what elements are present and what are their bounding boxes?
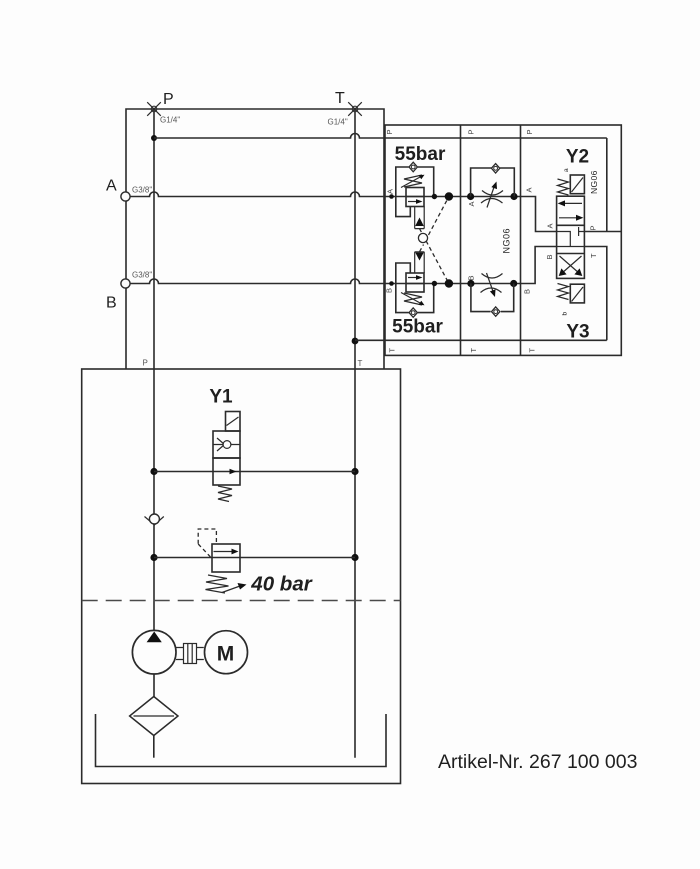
- adjust arrow of F2: [487, 273, 494, 293]
- solenoid b (Y3): [570, 284, 584, 303]
- svg-text:T: T: [589, 253, 598, 258]
- svg-text:Y1: Y1: [209, 387, 233, 408]
- svg-text:A: A: [467, 201, 476, 206]
- wire: dashed pilot line V1 to B line: [420, 229, 449, 284]
- U1 top box flow arrows: [563, 202, 582, 204]
- svg-text:B: B: [106, 295, 117, 312]
- wire: B work line (hops over P and T verticals, staircase to valve B port): [130, 247, 557, 284]
- svg-text:B: B: [385, 288, 394, 293]
- wire: U1 T port to manifold T rail: [584, 247, 606, 341]
- node: junction T return: [352, 338, 359, 345]
- svg-text:P: P: [385, 129, 394, 134]
- flow arrow inside V1: [408, 201, 418, 203]
- svg-text:a: a: [563, 168, 570, 172]
- port P (crossed plug symbol): [147, 102, 161, 116]
- svg-text:G3/8": G3/8": [132, 271, 152, 280]
- port T (crossed plug symbol): [348, 102, 362, 116]
- flow arrow inside RV1: [214, 551, 234, 553]
- spring of V1 (adjustable): [404, 175, 422, 187]
- svg-text:P: P: [525, 129, 534, 134]
- wire T vertical line (T port down into tank): [354, 109, 356, 758]
- solenoid a (Y2): [570, 175, 584, 194]
- spring of V2 (adjustable): [404, 293, 422, 305]
- svg-text:Y3: Y3: [566, 322, 589, 343]
- svg-text:NG06: NG06: [502, 228, 512, 254]
- wire: dashed separator inside power unit: [82, 600, 401, 602]
- throttle arcs of F1: [481, 191, 503, 204]
- spring at Y2 end: [558, 179, 569, 195]
- valve RV1: pressure relief valve 40 bar: [198, 529, 246, 593]
- valve V1: counterbalance/relief valve 55bar on A line: [396, 162, 434, 228]
- svg-text:P: P: [143, 359, 148, 368]
- node: junction Y1 branch left: [150, 468, 157, 475]
- svg-text:B: B: [467, 275, 476, 280]
- svg-text:NG06: NG06: [589, 170, 599, 194]
- check valve diamond of V1: [409, 162, 417, 172]
- wire: ports block outline (top/left/right of P-T-A-B block): [126, 109, 384, 369]
- wire: B line through V2 body: [406, 283, 424, 285]
- svg-text:A: A: [386, 189, 395, 194]
- svg-text:A: A: [106, 178, 117, 195]
- motor M1 (electric motor): [205, 631, 248, 674]
- manifold cell divider 1: [460, 125, 462, 355]
- wire: P supply branch to manifold header (hops over T line): [154, 134, 607, 139]
- pilot channel above V2 with check poppet: [415, 252, 425, 273]
- wire P vertical line (P port down to pump): [153, 109, 155, 630]
- wire: T return rail in manifold: [355, 339, 607, 341]
- wire: A line through V1 body: [406, 196, 424, 198]
- svg-text:A: A: [546, 223, 555, 228]
- svg-text:B: B: [523, 289, 532, 294]
- U1 bottom box crossed arrows: [560, 256, 582, 274]
- node: pilot crossing loop: [418, 233, 427, 242]
- shaft coupling pump-motor: [176, 644, 204, 664]
- Y1 lower position box (open): [213, 458, 240, 485]
- svg-text:T: T: [335, 90, 345, 107]
- spring at Y3 end: [558, 284, 569, 300]
- check valve diamond of V2: [409, 308, 417, 317]
- svg-text:55bar: 55bar: [395, 144, 446, 165]
- svg-text:Y2: Y2: [566, 147, 589, 168]
- svg-text:P: P: [467, 129, 476, 134]
- wire: V2 bypass loop: [396, 263, 434, 313]
- valve V2: counterbalance/relief valve 55bar on B line: [396, 252, 434, 317]
- wire: pump suction line: [153, 674, 155, 697]
- filter FL1 (suction strainer): [130, 697, 178, 736]
- svg-text:P: P: [589, 225, 598, 230]
- check valve CV1 on P line: [145, 514, 164, 525]
- pump P1 (fixed displacement): [132, 630, 176, 674]
- svg-text:T: T: [469, 348, 478, 353]
- U1 body (three position boxes): [557, 196, 585, 278]
- Y1 upper position box (check): [213, 431, 240, 458]
- wire: filter to tank: [153, 736, 155, 758]
- pilot dashed loop of RV1: [198, 529, 216, 557]
- node dots on A line: [389, 194, 394, 199]
- wire: V1 bypass loop: [396, 167, 434, 217]
- node: junction relief branch left: [150, 554, 157, 561]
- svg-text:G1/4": G1/4": [160, 116, 180, 125]
- manifold cell divider 2: [520, 125, 522, 355]
- wire: F1 bypass loop: [471, 168, 515, 197]
- check valve diamond of F2: [492, 307, 500, 316]
- svg-text:M: M: [217, 643, 235, 666]
- svg-text:B: B: [545, 254, 554, 259]
- RV1 body: [212, 544, 240, 572]
- wire: U1 P port to manifold P header: [584, 138, 621, 232]
- wire: A work line (hops over P and T verticals, staircase to valve A port): [130, 192, 557, 232]
- throttle arcs of F2: [481, 274, 503, 293]
- adjust arrow of F1: [487, 187, 494, 208]
- svg-text:T: T: [388, 348, 397, 353]
- wire: dashed pilot line V2 to A line (with crossing hop circle): [420, 197, 449, 252]
- svg-text:Artikel-Nr. 267 100 003: Artikel-Nr. 267 100 003: [438, 751, 637, 773]
- check valve diamond of F1: [491, 164, 499, 173]
- pilot channel below V1 with check poppet: [415, 207, 425, 229]
- svg-text:b: b: [562, 312, 569, 316]
- svg-text:55bar: 55bar: [392, 317, 443, 338]
- spring of Y1: [218, 486, 232, 502]
- U1 centre box paths (A-B-T connected, P blocked): [557, 227, 585, 247]
- svg-text:T: T: [358, 359, 363, 368]
- V1 valve body: [406, 188, 424, 207]
- node: junction P branch: [151, 135, 157, 141]
- svg-text:P: P: [163, 91, 174, 108]
- svg-text:G3/8": G3/8": [132, 186, 152, 195]
- tank symbol: [96, 714, 387, 767]
- V2 valve body: [406, 273, 424, 292]
- valve Y1: 2/2 solenoid seat valve: [213, 412, 240, 502]
- valve U1: 4/3 directional valve Y2/Y3 (drawn rotated 90deg): [557, 168, 585, 316]
- flow control F2 on B line (throttle + check bypass): [471, 273, 514, 316]
- port B (circle): [121, 279, 130, 288]
- svg-text:40 bar: 40 bar: [250, 573, 312, 596]
- power unit block outline: [82, 369, 401, 784]
- wire: relief branch line P to T: [154, 557, 355, 559]
- svg-text:A: A: [525, 187, 534, 192]
- node: junction Y1 branch right: [351, 468, 358, 475]
- solenoid of Y1: [226, 412, 241, 432]
- port A (circle): [121, 192, 130, 201]
- manifold block outline: [385, 125, 621, 355]
- spring of RV1 (adjustable): [206, 575, 229, 593]
- flow control F1 on A line (throttle + check bypass): [471, 164, 515, 208]
- flow arrow inside V2: [408, 277, 418, 279]
- wire: Y1 branch line P to T: [154, 471, 355, 473]
- node dots on B line: [389, 281, 394, 286]
- svg-text:T: T: [528, 348, 537, 353]
- wire: F2 bypass loop: [471, 284, 514, 312]
- node: junction relief branch right: [351, 554, 358, 561]
- svg-text:G1/4": G1/4": [328, 118, 348, 127]
